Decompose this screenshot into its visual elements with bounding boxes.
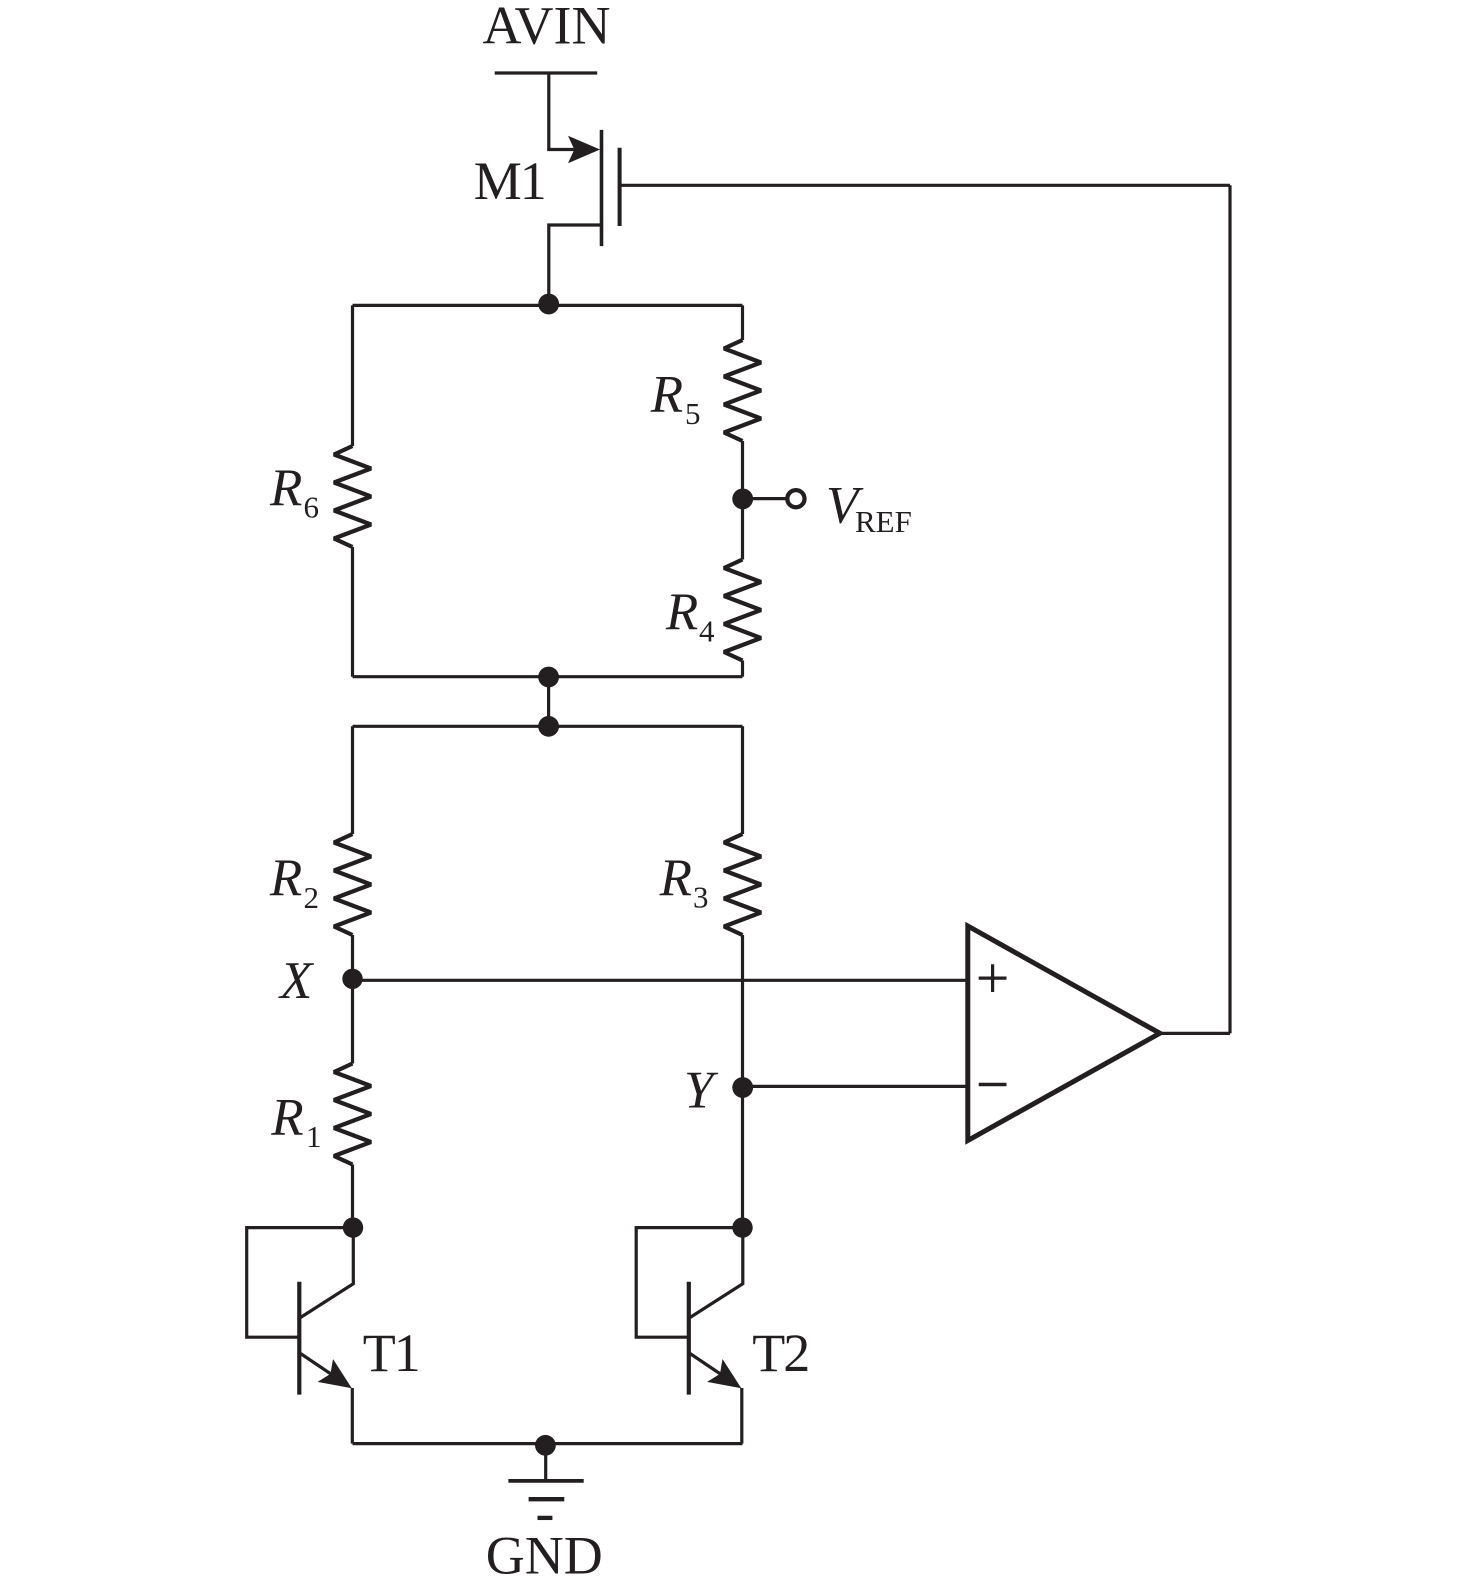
wire node X to op-amp noninverting input [353, 979, 968, 982]
wire R3 through crossing down to node Y and T2 [741, 935, 744, 1228]
transistor M1 [549, 130, 620, 303]
wire VREF tap [743, 497, 786, 500]
wire node Y to op-amp inverting input [743, 1085, 968, 1088]
wire top rail of first divider [353, 304, 743, 307]
wire left branch down to R6 [351, 305, 354, 446]
svg-text:R: R [269, 849, 302, 907]
wire feedback right vertical [1228, 185, 1231, 1033]
wire right branch down to R5 [741, 305, 744, 340]
resistor R3 [724, 834, 761, 935]
svg-text:X: X [278, 952, 315, 1010]
label R6 [269, 459, 319, 525]
junction node X [342, 969, 362, 989]
resistor R5 [724, 340, 761, 441]
wire AVIN to M1 drain [549, 73, 575, 150]
resistor R2 [334, 834, 371, 935]
wire M1 gate lead [620, 184, 1230, 187]
wire bottom rail of first divider [353, 675, 743, 678]
svg-text:GND: GND [486, 1526, 603, 1586]
wire R2 to node X [351, 935, 354, 979]
svg-text:R: R [650, 366, 683, 424]
resistor R6 [334, 446, 371, 547]
junction node VREF [732, 489, 753, 510]
wire emitter rail [353, 1442, 743, 1445]
resistor R4 [724, 560, 761, 661]
svg-text:1: 1 [306, 1119, 322, 1154]
ground [508, 1445, 583, 1518]
junction node Y [732, 1077, 753, 1098]
svg-text:T2: T2 [752, 1323, 808, 1383]
svg-text:2: 2 [304, 880, 320, 915]
wire link between dividers [547, 677, 550, 726]
label VREF [826, 476, 912, 538]
svg-text:R: R [270, 1089, 303, 1147]
svg-text:AVIN: AVIN [482, 0, 610, 56]
svg-text:5: 5 [685, 396, 701, 431]
svg-text:M1: M1 [474, 151, 545, 211]
op-amp U1 [968, 926, 1160, 1141]
svg-text:REF: REF [855, 504, 912, 539]
terminal VREF open circle [787, 490, 804, 507]
wire R1 to T1 collector node [351, 1165, 354, 1228]
svg-text:Y: Y [684, 1061, 719, 1119]
svg-text:T1: T1 [363, 1323, 419, 1383]
label R1 [270, 1089, 321, 1155]
junction node T2 collector [732, 1217, 752, 1237]
junction node first divider bottom [538, 667, 559, 688]
wire right branch down to R3 [741, 726, 744, 834]
label R5 [650, 366, 701, 432]
label R4 [665, 583, 715, 649]
label R2 [269, 849, 319, 915]
junction node second divider top [538, 716, 559, 737]
svg-text:4: 4 [699, 613, 715, 648]
svg-text:6: 6 [304, 490, 320, 525]
svg-text:3: 3 [693, 880, 709, 915]
transistor T1 [247, 1228, 354, 1444]
wire R6 to bottom rail [351, 547, 354, 677]
wire left branch down to R2 [351, 726, 354, 834]
wire R5 to VREF node [741, 441, 744, 560]
wire top rail of second divider [353, 725, 743, 728]
label R3 [659, 849, 709, 915]
transistor T2 [636, 1228, 743, 1444]
wire node X down to R1 [351, 979, 354, 1064]
svg-text:R: R [269, 459, 302, 517]
svg-text:R: R [659, 849, 692, 907]
resistor R1 [334, 1064, 371, 1165]
svg-text:R: R [665, 583, 698, 641]
junction node M1 drain [538, 294, 559, 315]
junction node ground [535, 1435, 556, 1456]
power supply AVIN bar [495, 71, 598, 74]
wire op-amp output [1160, 1032, 1230, 1035]
wire R4 to bottom rail [741, 661, 744, 677]
junction node T1 collector [343, 1217, 363, 1237]
